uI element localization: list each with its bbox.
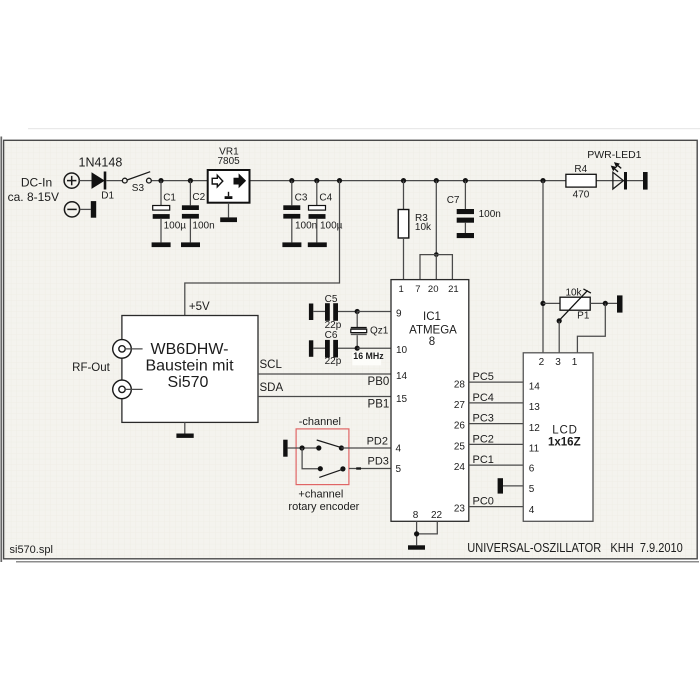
RF-Out connector lower	[113, 380, 143, 399]
svg-text:C6: C6	[325, 330, 338, 341]
voltage regulator VR1 7805	[208, 170, 250, 203]
bottom page shadow	[16, 561, 699, 563]
svg-text:WB6DHW-: WB6DHW-	[151, 341, 229, 358]
capacitor C5	[313, 303, 357, 321]
svg-text:-channel: -channel	[299, 416, 341, 428]
wire WB6DHW box to ground	[184, 422, 186, 433]
svg-text:7: 7	[415, 284, 420, 295]
svg-text:C4: C4	[319, 192, 332, 203]
potentiometer P1	[543, 289, 617, 321]
encoder switch B lever	[319, 469, 343, 478]
svg-text:20: 20	[428, 284, 439, 295]
svg-text:12: 12	[529, 423, 541, 434]
wire PC0	[469, 506, 523, 508]
DC-In plus terminal	[64, 173, 79, 188]
wire encoder common	[288, 447, 319, 449]
wire plus to diode	[79, 180, 91, 182]
ground bar (P1)	[617, 295, 623, 312]
capacitor C3	[283, 181, 300, 243]
svg-text:4: 4	[396, 443, 402, 454]
wire encoder B to pin 5	[349, 468, 391, 470]
svg-text:PC4: PC4	[473, 392, 494, 404]
crystal oscillator group: ground bar (C5)	[309, 304, 313, 321]
svg-text:S3: S3	[132, 183, 145, 194]
svg-text:C5: C5	[325, 294, 338, 305]
node junction +5V feed	[337, 178, 342, 183]
LCD display module	[523, 353, 593, 522]
svg-text:9: 9	[396, 308, 402, 319]
ground bar (VR1)	[220, 217, 237, 222]
svg-text:R4: R4	[574, 164, 587, 175]
op IC1 ATMEGA8 box	[391, 280, 469, 522]
svg-text:IC1: IC1	[423, 311, 441, 323]
encoder switch A contacts	[316, 445, 321, 450]
ground bar (C4)	[308, 242, 327, 247]
ground bar (encoder)	[283, 440, 287, 457]
wire to pin 10	[357, 347, 391, 349]
ground bar (DC-In minus)	[91, 201, 96, 218]
svg-text:Baustein mit: Baustein mit	[145, 358, 234, 375]
node junction P1 right	[603, 301, 608, 306]
svg-text:28: 28	[454, 379, 466, 390]
svg-text:100n: 100n	[295, 220, 317, 231]
wire PC4	[469, 402, 523, 404]
svg-text:24: 24	[454, 462, 466, 473]
svg-text:PC3: PC3	[473, 413, 494, 425]
ground bar (C3)	[282, 242, 301, 247]
svg-text:5: 5	[396, 464, 402, 475]
svg-text:rotary encoder: rotary encoder	[288, 501, 359, 513]
svg-text:C7: C7	[447, 195, 460, 206]
svg-text:22: 22	[431, 510, 443, 521]
svg-text:UNIVERSAL-OSZILLATOR KHH 7.: UNIVERSAL-OSZILLATOR KHH 7.9.2010	[467, 541, 683, 555]
node junction P1 left	[540, 301, 545, 306]
resistor R3	[398, 181, 409, 280]
svg-text:16 MHz: 16 MHz	[353, 351, 384, 361]
wire minus to ground	[80, 208, 91, 210]
node junction P1 wiper	[557, 318, 562, 323]
node junction C3	[289, 178, 294, 183]
svg-text:ca. 8-15V: ca. 8-15V	[8, 190, 59, 204]
capacitor C6	[313, 340, 357, 358]
ground bar (C1)	[152, 242, 171, 247]
svg-text:25: 25	[454, 441, 466, 452]
svg-text:11: 11	[529, 444, 540, 455]
svg-text:LCD: LCD	[552, 425, 577, 437]
node junction pin9	[355, 309, 360, 314]
svg-text:27: 27	[454, 400, 466, 411]
svg-text:1x16Z: 1x16Z	[548, 436, 581, 448]
RF-Out connector upper	[113, 340, 143, 359]
svg-text:13: 13	[529, 402, 541, 413]
svg-text:DC-In: DC-In	[21, 175, 52, 189]
ground bar (WB6DHW)	[176, 434, 193, 438]
svg-text:P1: P1	[577, 311, 590, 322]
wire SDA	[258, 396, 391, 398]
crystal Qz1	[351, 311, 367, 348]
label 16 MHz	[352, 351, 384, 365]
svg-text:10: 10	[396, 345, 408, 356]
encoder switch B contacts	[318, 466, 323, 471]
left window edge line	[0, 137, 2, 563]
svg-text:100n: 100n	[192, 220, 214, 231]
page sheet with grid	[4, 141, 696, 558]
svg-text:14: 14	[396, 371, 408, 382]
node junction pins 7-20-21	[434, 178, 439, 183]
svg-text:21: 21	[448, 284, 459, 295]
LED PWR-LED1	[611, 162, 627, 189]
switch S3	[122, 172, 151, 183]
svg-text:+5V: +5V	[189, 301, 210, 313]
ground bar (C7)	[457, 233, 474, 238]
svg-text:2: 2	[539, 357, 545, 368]
svg-text:si570.spl: si570.spl	[10, 544, 53, 556]
svg-text:SCL: SCL	[260, 359, 283, 371]
wire diode to switch	[106, 180, 122, 182]
svg-text:D1: D1	[101, 191, 114, 202]
capacitor C1 (electrolytic)	[153, 181, 170, 243]
resistor R4	[566, 174, 596, 187]
wire to pin 9	[357, 310, 391, 312]
svg-text:PB0: PB0	[368, 376, 390, 388]
svg-text:PB1: PB1	[368, 398, 390, 410]
svg-text:1N4148: 1N4148	[79, 155, 123, 169]
svg-text:3: 3	[555, 357, 561, 368]
svg-text:RF-Out: RF-Out	[72, 362, 111, 374]
wire bracket pins 7 20 21	[420, 255, 452, 280]
svg-text:15: 15	[396, 394, 408, 405]
node junction pin8 ground	[414, 531, 419, 536]
svg-text:6: 6	[529, 464, 535, 475]
wire LCD pin5	[503, 485, 523, 487]
WB6DHW Si570 module U2	[122, 316, 258, 423]
node junction R3	[401, 178, 406, 183]
ground bar (LCD pin5)	[498, 478, 503, 493]
svg-text:10k: 10k	[415, 222, 432, 233]
svg-text:+channel: +channel	[298, 489, 343, 501]
capacitor C4 (electrolytic)	[309, 181, 326, 243]
svg-text:8: 8	[413, 510, 419, 521]
svg-text:PC2: PC2	[473, 433, 494, 445]
svg-text:100µ: 100µ	[164, 220, 187, 231]
svg-text:C1: C1	[163, 192, 176, 203]
node encoder common	[300, 445, 305, 450]
rotary encoder S1 red outline	[296, 429, 349, 485]
node junction pin10	[355, 346, 360, 351]
page border frame	[4, 140, 698, 559]
svg-text:470: 470	[573, 189, 590, 200]
wire PC5	[469, 381, 523, 383]
svg-text:PC5: PC5	[473, 371, 494, 383]
svg-text:10k: 10k	[565, 287, 582, 298]
svg-text:ATMEGA: ATMEGA	[409, 325, 457, 337]
svg-text:100n: 100n	[479, 209, 501, 220]
capacitor C7	[457, 181, 474, 233]
svg-text:Si570: Si570	[168, 374, 209, 391]
wire PC2	[469, 443, 523, 445]
svg-text:1: 1	[399, 284, 404, 295]
svg-text:23: 23	[454, 504, 466, 515]
svg-text:7805: 7805	[217, 156, 240, 167]
diode D1	[92, 172, 106, 190]
node junction C7	[463, 178, 468, 183]
ground bar (IC1)	[408, 545, 425, 549]
svg-text:PD3: PD3	[367, 456, 388, 468]
wire P1 right to LCD pin1	[577, 303, 605, 352]
wire main +V rail left segment	[151, 180, 208, 182]
node junction LCD feed	[540, 178, 545, 183]
capacitor C2	[182, 181, 199, 243]
node bracket junction	[434, 252, 439, 257]
faint ruler line above page	[28, 128, 700, 130]
encoder switch A lever	[317, 440, 342, 448]
svg-text:4: 4	[529, 505, 535, 516]
svg-text:1: 1	[572, 357, 578, 368]
svg-text:14: 14	[529, 381, 541, 392]
node junction C1	[158, 178, 163, 183]
svg-text:PC0: PC0	[473, 496, 494, 508]
wire PC1	[469, 464, 523, 466]
svg-text:22p: 22p	[325, 356, 342, 367]
DC-In minus terminal	[64, 202, 79, 217]
svg-text:C3: C3	[295, 192, 308, 203]
wire PC3	[469, 423, 523, 425]
node junction C4	[314, 178, 319, 183]
svg-text:PC1: PC1	[473, 454, 494, 466]
wire LCD pin2 feed	[542, 181, 544, 353]
svg-text:PD2: PD2	[367, 436, 388, 448]
wire main +V rail right segment	[250, 180, 644, 182]
wire VR1 to ground	[228, 203, 230, 218]
wire rail to pin bracket	[435, 181, 437, 255]
svg-text:8: 8	[429, 336, 435, 348]
svg-text:C2: C2	[192, 192, 205, 203]
wire encoder common down	[302, 448, 320, 469]
wire encoder A to pin 4	[341, 447, 391, 449]
svg-text:SDA: SDA	[260, 382, 284, 394]
wire IC pin 8 and 22 to ground	[417, 521, 438, 545]
svg-text:PWR-LED1: PWR-LED1	[587, 149, 641, 161]
svg-text:5: 5	[529, 484, 535, 495]
wire dash (pin 5)	[356, 467, 361, 469]
ground bar (C2)	[181, 242, 200, 247]
ground bar (LED)	[643, 172, 648, 190]
node junction C2	[188, 178, 193, 183]
wire +5V feed to WB6DHW box	[185, 181, 340, 316]
svg-text:26: 26	[454, 421, 466, 432]
svg-text:Qz1: Qz1	[370, 325, 389, 336]
ground bar (C6)	[309, 340, 313, 357]
wire P1 wiper to LCD pin3	[558, 321, 560, 353]
wire SCL	[258, 373, 391, 375]
